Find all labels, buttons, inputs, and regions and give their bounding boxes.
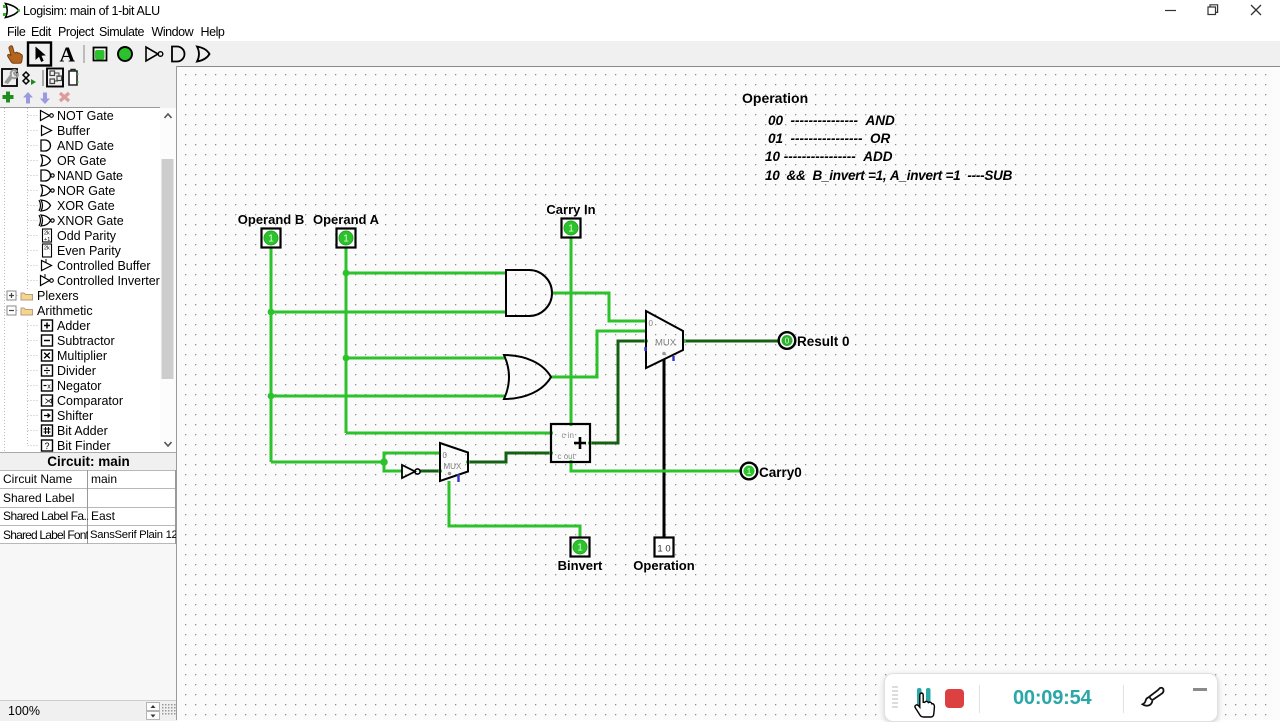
svg-text:Operation: Operation (742, 90, 808, 106)
svg-text:?: ? (45, 441, 50, 451)
wire operand B bottom horizontal (271, 461, 384, 464)
wire OR output to MUX input 1 (551, 331, 646, 377)
wire junction branch up to small MUX input 0 (384, 453, 440, 462)
svg-text:1: 1 (343, 234, 349, 245)
svg-text:MUX: MUX (655, 338, 677, 349)
wire operand B vertical (270, 247, 273, 462)
svg-text:Operand B: Operand B (238, 212, 304, 227)
svg-text:Result 0: Result 0 (797, 334, 850, 349)
svg-text:2k: 2k (44, 246, 50, 252)
svg-text:2k: 2k (44, 231, 50, 237)
svg-text:NOT Gate: NOT Gate (57, 109, 114, 123)
wire operand B to OR lower input (271, 395, 505, 398)
svg-text:A: A (60, 43, 76, 67)
wire operand A to AND upper input (346, 272, 506, 275)
simulation hierarchy icon (23, 72, 29, 84)
wire AND output to MUX input 0 (552, 293, 646, 321)
svg-text:XOR Gate: XOR Gate (57, 199, 115, 213)
junction operand A / AND (343, 270, 350, 277)
svg-text:NAND Gate: NAND Gate (57, 169, 123, 183)
OR gate (504, 355, 551, 399)
svg-text:0: 0 (443, 451, 448, 460)
wire NOT output to small MUX input 1 (420, 470, 440, 473)
title bar (0, 0, 1280, 21)
AND gate (506, 270, 552, 316)
output pin Result 0 (779, 332, 796, 349)
project toolbar (0, 90, 177, 108)
circuit: main header (0, 452, 177, 472)
wire carry in vertical (570, 238, 573, 424)
svg-text:Controlled Buffer: Controlled Buffer (57, 259, 151, 273)
wire junction branch down to NOT gate (384, 462, 402, 471)
big MUX (646, 311, 684, 368)
main toolbar (0, 41, 1280, 67)
svg-text:Carry In: Carry In (546, 202, 595, 217)
pause button (916, 687, 932, 709)
timer (1013, 687, 1091, 710)
output pin Carry0 (741, 463, 758, 480)
svg-text:XNOR Gate: XNOR Gate (57, 214, 124, 228)
svg-text:⋊: ⋊ (45, 397, 53, 406)
NOT gate tool (146, 47, 158, 61)
junction operand B / OR (268, 393, 275, 400)
minimize dash (1193, 688, 1207, 691)
empty attribute area (0, 544, 176, 700)
svg-text:10 ---------------- ADD: 10 ---------------- ADD (765, 149, 893, 164)
svg-text:AND Gate: AND Gate (57, 139, 114, 153)
svg-text:Subtractor: Subtractor (57, 334, 115, 348)
svg-text:Plexers: Plexers (37, 289, 79, 303)
component port dots (438, 339, 686, 473)
wire operand B to AND lower input (271, 311, 506, 314)
zoom bar (0, 700, 177, 721)
menu bar (0, 21, 1280, 41)
wire small MUX select to Binvert (449, 481, 580, 538)
separator (42, 70, 44, 86)
input pin Operand A (337, 229, 356, 248)
hand cursor (911, 691, 937, 721)
wrench button (selected) (2, 69, 17, 86)
explorer tree (0, 107, 160, 453)
panel/canvas divider (176, 66, 177, 720)
small MUX (440, 443, 468, 482)
NOT gate (402, 465, 420, 478)
svg-text:1: 1 (577, 543, 583, 554)
input pin tool (94, 48, 107, 61)
svg-text:0: 0 (649, 319, 654, 328)
wire MUX output to Result 0 (684, 340, 778, 343)
svg-text:c out: c out (558, 452, 576, 461)
svg-text:Arithmetic: Arithmetic (37, 304, 93, 318)
circuit icon button selected (47, 69, 63, 87)
svg-text:Even Parity: Even Parity (57, 244, 122, 258)
svg-text:c in: c in (562, 431, 574, 440)
wire adder carry out to Carry0 (571, 462, 740, 471)
junction operand A / OR (343, 355, 350, 362)
svg-text:0: 0 (785, 336, 790, 346)
OR gate tool (197, 47, 210, 62)
svg-text:Shifter: Shifter (57, 409, 93, 423)
property table (0, 470, 176, 544)
explorer toolbar (0, 66, 177, 90)
junction operand B / small MUX branch (380, 458, 388, 466)
svg-text:Bit Finder: Bit Finder (57, 439, 111, 453)
input pin Binvert (571, 538, 590, 557)
output pin tool (118, 47, 132, 61)
wire operand A vertical (345, 247, 348, 433)
svg-text:Bit Adder: Bit Adder (57, 424, 108, 438)
svg-text:Odd Parity: Odd Parity (57, 229, 117, 243)
input pin Operand B (262, 229, 281, 248)
svg-text:NOR Gate: NOR Gate (57, 184, 115, 198)
junction operand B / AND (268, 309, 275, 316)
svg-text:x: x (47, 383, 51, 390)
brush icon (1140, 686, 1166, 710)
left panel background (0, 67, 177, 720)
svg-text:Operation: Operation (633, 558, 694, 573)
svg-text:Adder: Adder (57, 319, 90, 333)
svg-text:1: 1 (568, 224, 574, 235)
vhdl doc icon (69, 71, 77, 85)
stop button (945, 689, 964, 708)
svg-text:Binvert: Binvert (558, 558, 603, 573)
adder (551, 424, 590, 462)
separator (83, 45, 85, 63)
logisim app icon (3, 2, 20, 19)
svg-text:10 && B_invert =1, A_invert: 10 && B_invert =1, A_invert =1 ----SUB (765, 168, 1013, 183)
wire adder sum to MUX input 2 (590, 341, 646, 443)
hand poke tool (8, 46, 23, 63)
svg-text:Operand A: Operand A (313, 212, 380, 227)
wire small MUX output to adder input B (468, 453, 551, 462)
svg-text:+1: +1 (44, 237, 50, 243)
svg-text:Multiplier: Multiplier (57, 349, 107, 363)
svg-text:01 ---------------- OR: 01 ---------------- OR (768, 131, 890, 146)
input pin Operation 2-bit (655, 538, 674, 557)
recording widget (884, 673, 1218, 722)
svg-text:Negator: Negator (57, 379, 101, 393)
edit (arrow) tool selected (28, 43, 51, 66)
svg-text:MUX: MUX (444, 462, 462, 471)
svg-text:1 0: 1 0 (657, 544, 670, 555)
svg-text:Controlled Inverter: Controlled Inverter (57, 274, 160, 288)
wire operand A to adder input A (346, 432, 551, 435)
svg-text:Divider: Divider (57, 364, 96, 378)
svg-text:1: 1 (268, 234, 274, 245)
window buttons (1144, 0, 1280, 21)
wire operand A to OR upper input (346, 357, 505, 360)
svg-text:00 --------------- AND: 00 --------------- AND (768, 113, 895, 128)
svg-text:1: 1 (747, 466, 752, 476)
tree scrollbar (160, 108, 176, 452)
svg-text:Carry0: Carry0 (759, 465, 802, 480)
svg-text:OR Gate: OR Gate (57, 154, 106, 168)
svg-text:Comparator: Comparator (57, 394, 123, 408)
svg-text:Buffer: Buffer (57, 124, 90, 138)
AND gate tool (172, 47, 185, 62)
input pin Carry In (562, 219, 581, 238)
wire operation select to MUX (663, 359, 666, 538)
